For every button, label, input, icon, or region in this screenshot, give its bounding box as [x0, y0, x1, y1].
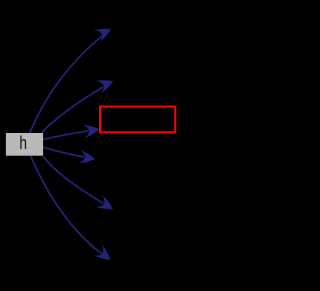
arrow 5 head	[96, 195, 113, 209]
arrow 4 head	[78, 150, 95, 164]
red highlight rectangle	[100, 107, 175, 133]
arrow 1 head	[94, 29, 111, 43]
svg-text:h: h	[19, 133, 27, 153]
arrow 1 shaft	[30, 36, 102, 133]
arrow 2 shaft	[42, 87, 104, 133]
node h box	[6, 133, 43, 156]
arrow 5 shaft	[43, 156, 103, 203]
arrow 6 shaft	[31, 156, 102, 254]
arrow 6 head	[94, 245, 111, 260]
arrow 3 head	[83, 125, 100, 139]
arrow 4 shaft	[43, 147, 84, 157]
arrow 2 head	[96, 80, 113, 93]
arrow 3 shaft	[43, 131, 88, 140]
